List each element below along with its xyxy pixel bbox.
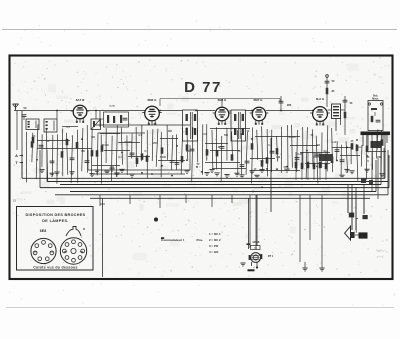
wire V3 to T2 bbox=[159, 99, 314, 111]
svg-text:Exc.: Exc. bbox=[358, 146, 363, 149]
svg-text:=*~#: =*~# bbox=[377, 255, 384, 259]
capacitor C2 bbox=[39, 145, 44, 148]
svg-text:6E8: 6E8 bbox=[40, 229, 46, 233]
commutateur legend bbox=[161, 232, 221, 254]
IF transformer T1 bbox=[183, 110, 198, 141]
wire L2 to V1 bbox=[40, 110, 73, 119]
svg-text:300: 300 bbox=[110, 166, 115, 169]
svg-text:B: B bbox=[83, 228, 85, 231]
speaker magnet bbox=[351, 232, 368, 239]
osc coil L3 bbox=[91, 119, 101, 130]
wire to chassis bottom bbox=[100, 198, 105, 277]
svg-text:Commutateur I: Commutateur I bbox=[161, 238, 184, 242]
HT and heater rails bbox=[22, 178, 389, 198]
svg-text:D 77: D 77 bbox=[184, 79, 222, 96]
antenna bbox=[13, 104, 27, 110]
svg-text:5.000: 5.000 bbox=[160, 156, 167, 159]
wire drops below rails bbox=[100, 195, 364, 262]
svg-text:A: A bbox=[15, 154, 18, 158]
svg-text:280: 280 bbox=[287, 103, 292, 107]
padder trimmer block bbox=[100, 106, 129, 128]
svg-text:2 = OC 2: 2 = OC 2 bbox=[209, 238, 221, 242]
svg-text:DISPOSITION DES BROCHES: DISPOSITION DES BROCHES bbox=[26, 213, 86, 217]
tube V4 6Q7 bbox=[250, 98, 269, 125]
svg-text:3 = PO: 3 = PO bbox=[209, 244, 219, 248]
IF transformer T2 bbox=[231, 110, 246, 141]
wire V1 plate bbox=[87, 110, 145, 119]
svg-text:Bob.: Bob. bbox=[373, 96, 378, 98]
svg-text:400: 400 bbox=[81, 150, 86, 153]
AVC line bbox=[160, 99, 280, 107]
svg-text:RT 1: RT 1 bbox=[268, 255, 274, 258]
tube socket legend box bbox=[17, 207, 94, 271]
label left edge bbox=[13, 200, 16, 203]
svg-text:100: 100 bbox=[91, 136, 96, 139]
capacitor C21 bbox=[356, 215, 368, 233]
wire drop to pilot lamp bbox=[247, 195, 258, 249]
tube V2 6M6G bbox=[142, 98, 162, 125]
component band wires bbox=[26, 124, 384, 184]
transformer legs bbox=[363, 135, 387, 150]
ground mark left of lamp bbox=[240, 263, 245, 266]
svg-text:CM: CM bbox=[80, 252, 84, 254]
svg-text:2 M: 2 M bbox=[186, 150, 190, 153]
tube V3 6B8 bbox=[213, 98, 232, 125]
ink blob junction bbox=[154, 217, 164, 239]
wire T1 to V3 bbox=[198, 110, 216, 112]
svg-text:6L6 G: 6L6 G bbox=[316, 97, 325, 101]
wire drops to speaker bbox=[348, 185, 364, 230]
svg-text:300: 300 bbox=[168, 130, 173, 133]
svg-text:1 = OC 1: 1 = OC 1 bbox=[209, 232, 221, 236]
interconnect wires bbox=[37, 125, 360, 171]
svg-text:%#*=~: %#*=~ bbox=[376, 249, 386, 253]
small blocks right bbox=[361, 148, 384, 199]
svg-text:8 uF: 8 uF bbox=[332, 141, 337, 144]
component value labels bbox=[33, 126, 370, 171]
svg-text:Culots vus du dessous: Culots vus du dessous bbox=[33, 266, 78, 270]
capacitor C20 bbox=[349, 213, 354, 218]
svg-text:250: 250 bbox=[153, 142, 158, 145]
svg-text:6A7 B: 6A7 B bbox=[76, 98, 85, 102]
socket 6E8 diagram bbox=[31, 238, 56, 263]
output transformer TR1 bbox=[328, 104, 346, 131]
wire antenna to L1 bbox=[14, 111, 40, 179]
svg-text:1 M: 1 M bbox=[216, 146, 220, 149]
exciter blob bbox=[313, 151, 333, 161]
ground symbols bottom bbox=[302, 262, 324, 271]
resistor bank bbox=[295, 152, 328, 180]
svg-text:1 M: 1 M bbox=[276, 156, 280, 159]
capacitor C16 bbox=[343, 96, 353, 135]
svg-text:4 = GO: 4 = GO bbox=[209, 250, 219, 254]
tube V1 6A7B bbox=[71, 98, 90, 123]
resistor R1 bbox=[32, 137, 35, 143]
rail end verticals bbox=[22, 135, 389, 195]
socket octal diagram bbox=[60, 227, 86, 265]
feedback loop wires bbox=[88, 145, 190, 174]
field coil box Bob.Mouv bbox=[368, 96, 383, 131]
pilot lamp / vibrator M1 bbox=[248, 241, 274, 271]
chassis bar bbox=[361, 132, 391, 136]
svg-text:CM: CM bbox=[50, 252, 54, 254]
svg-text:MO: MO bbox=[34, 252, 38, 254]
svg-text:200: 200 bbox=[316, 144, 321, 147]
wire V4 to V5 bbox=[266, 110, 313, 112]
wire T2 to V4 bbox=[246, 110, 253, 112]
svg-text:Pos.: Pos. bbox=[197, 238, 204, 242]
speaker LS1 bbox=[345, 226, 351, 241]
svg-text:15-80: 15-80 bbox=[109, 106, 115, 108]
coil L2 bbox=[44, 119, 57, 132]
rectifier block bbox=[366, 141, 386, 159]
coil L1 bbox=[26, 119, 39, 130]
wire V2 to T1 bbox=[159, 110, 182, 112]
resistor R20 chain bbox=[325, 75, 335, 107]
svg-text:500: 500 bbox=[224, 134, 229, 137]
svg-text:50.000: 50.000 bbox=[124, 141, 132, 144]
socket caption bbox=[27, 266, 84, 270]
title D 77 bbox=[184, 79, 222, 96]
svg-text:6M6 G: 6M6 G bbox=[147, 98, 157, 102]
svg-text:MO: MO bbox=[64, 252, 68, 254]
wire strong vertical bbox=[252, 138, 272, 212]
svg-text:25.000: 25.000 bbox=[101, 144, 109, 147]
capacitor C1 bbox=[22, 114, 27, 120]
terminal T bbox=[15, 161, 23, 165]
tube V5 6L6 bbox=[310, 97, 330, 125]
svg-text:10.000: 10.000 bbox=[288, 136, 296, 139]
svg-text:DE LAMPES.: DE LAMPES. bbox=[42, 219, 69, 223]
terminal A bbox=[15, 154, 23, 158]
capacitor C14 280 bbox=[279, 96, 292, 111]
